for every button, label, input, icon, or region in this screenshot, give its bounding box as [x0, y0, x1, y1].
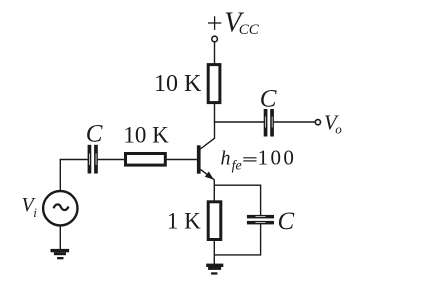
svg-text:10 K: 10 K — [154, 71, 202, 97]
source Vi (AC source circle) — [43, 191, 77, 225]
svg-text:CC: CC — [239, 22, 260, 38]
wire down to source Vi — [59, 159, 61, 191]
transistor Q1 emitter lead with arrow — [201, 169, 214, 179]
capacitor C input coupling — [88, 145, 98, 174]
svg-text:C: C — [260, 86, 277, 113]
transistor Q1 base bar — [197, 145, 201, 173]
label +VCC — [208, 16, 221, 30]
source Vi sine symbol — [54, 204, 69, 210]
wire collector node to output cap — [214, 121, 265, 123]
transistor Q1 collector lead — [200, 138, 214, 149]
svg-text:C: C — [86, 121, 103, 148]
wire R3 to ground — [213, 240, 215, 264]
svg-text:1 K: 1 K — [167, 208, 201, 233]
wire Vi to input cap — [60, 159, 87, 161]
svg-text:fe: fe — [232, 159, 242, 174]
svg-text:100: 100 — [258, 146, 297, 170]
terminal +VCC (open circle) — [212, 36, 218, 42]
svg-text:o: o — [335, 122, 342, 137]
wire bypass cap bottom to emitter ground branch — [214, 224, 260, 255]
wire input cap to R2 — [98, 159, 124, 161]
capacitor C emitter bypass — [247, 215, 274, 225]
svg-text:10 K: 10 K — [123, 123, 169, 148]
svg-text:i: i — [33, 205, 37, 220]
resistor R3 1K emitter — [208, 202, 221, 240]
wire emitter node to bypass cap branch — [214, 185, 260, 215]
ground (emitter) — [206, 264, 223, 275]
wire VCC terminal to R1 top — [214, 42, 216, 64]
terminal Vo (open circle) — [315, 120, 320, 125]
resistor R1 10K collector load — [208, 65, 220, 103]
resistor R2 10K base series — [126, 154, 166, 166]
wire output cap to Vo terminal — [274, 121, 315, 123]
ground (input source) — [51, 249, 70, 259]
wire Vi to ground — [59, 226, 61, 250]
svg-text:C: C — [278, 208, 295, 235]
wire base to transistor — [166, 159, 197, 161]
wire emitter down to R3 — [213, 179, 215, 201]
svg-text:h: h — [221, 147, 231, 169]
capacitor C output coupling — [264, 109, 274, 137]
wire R1 bottom to collector — [214, 104, 216, 139]
